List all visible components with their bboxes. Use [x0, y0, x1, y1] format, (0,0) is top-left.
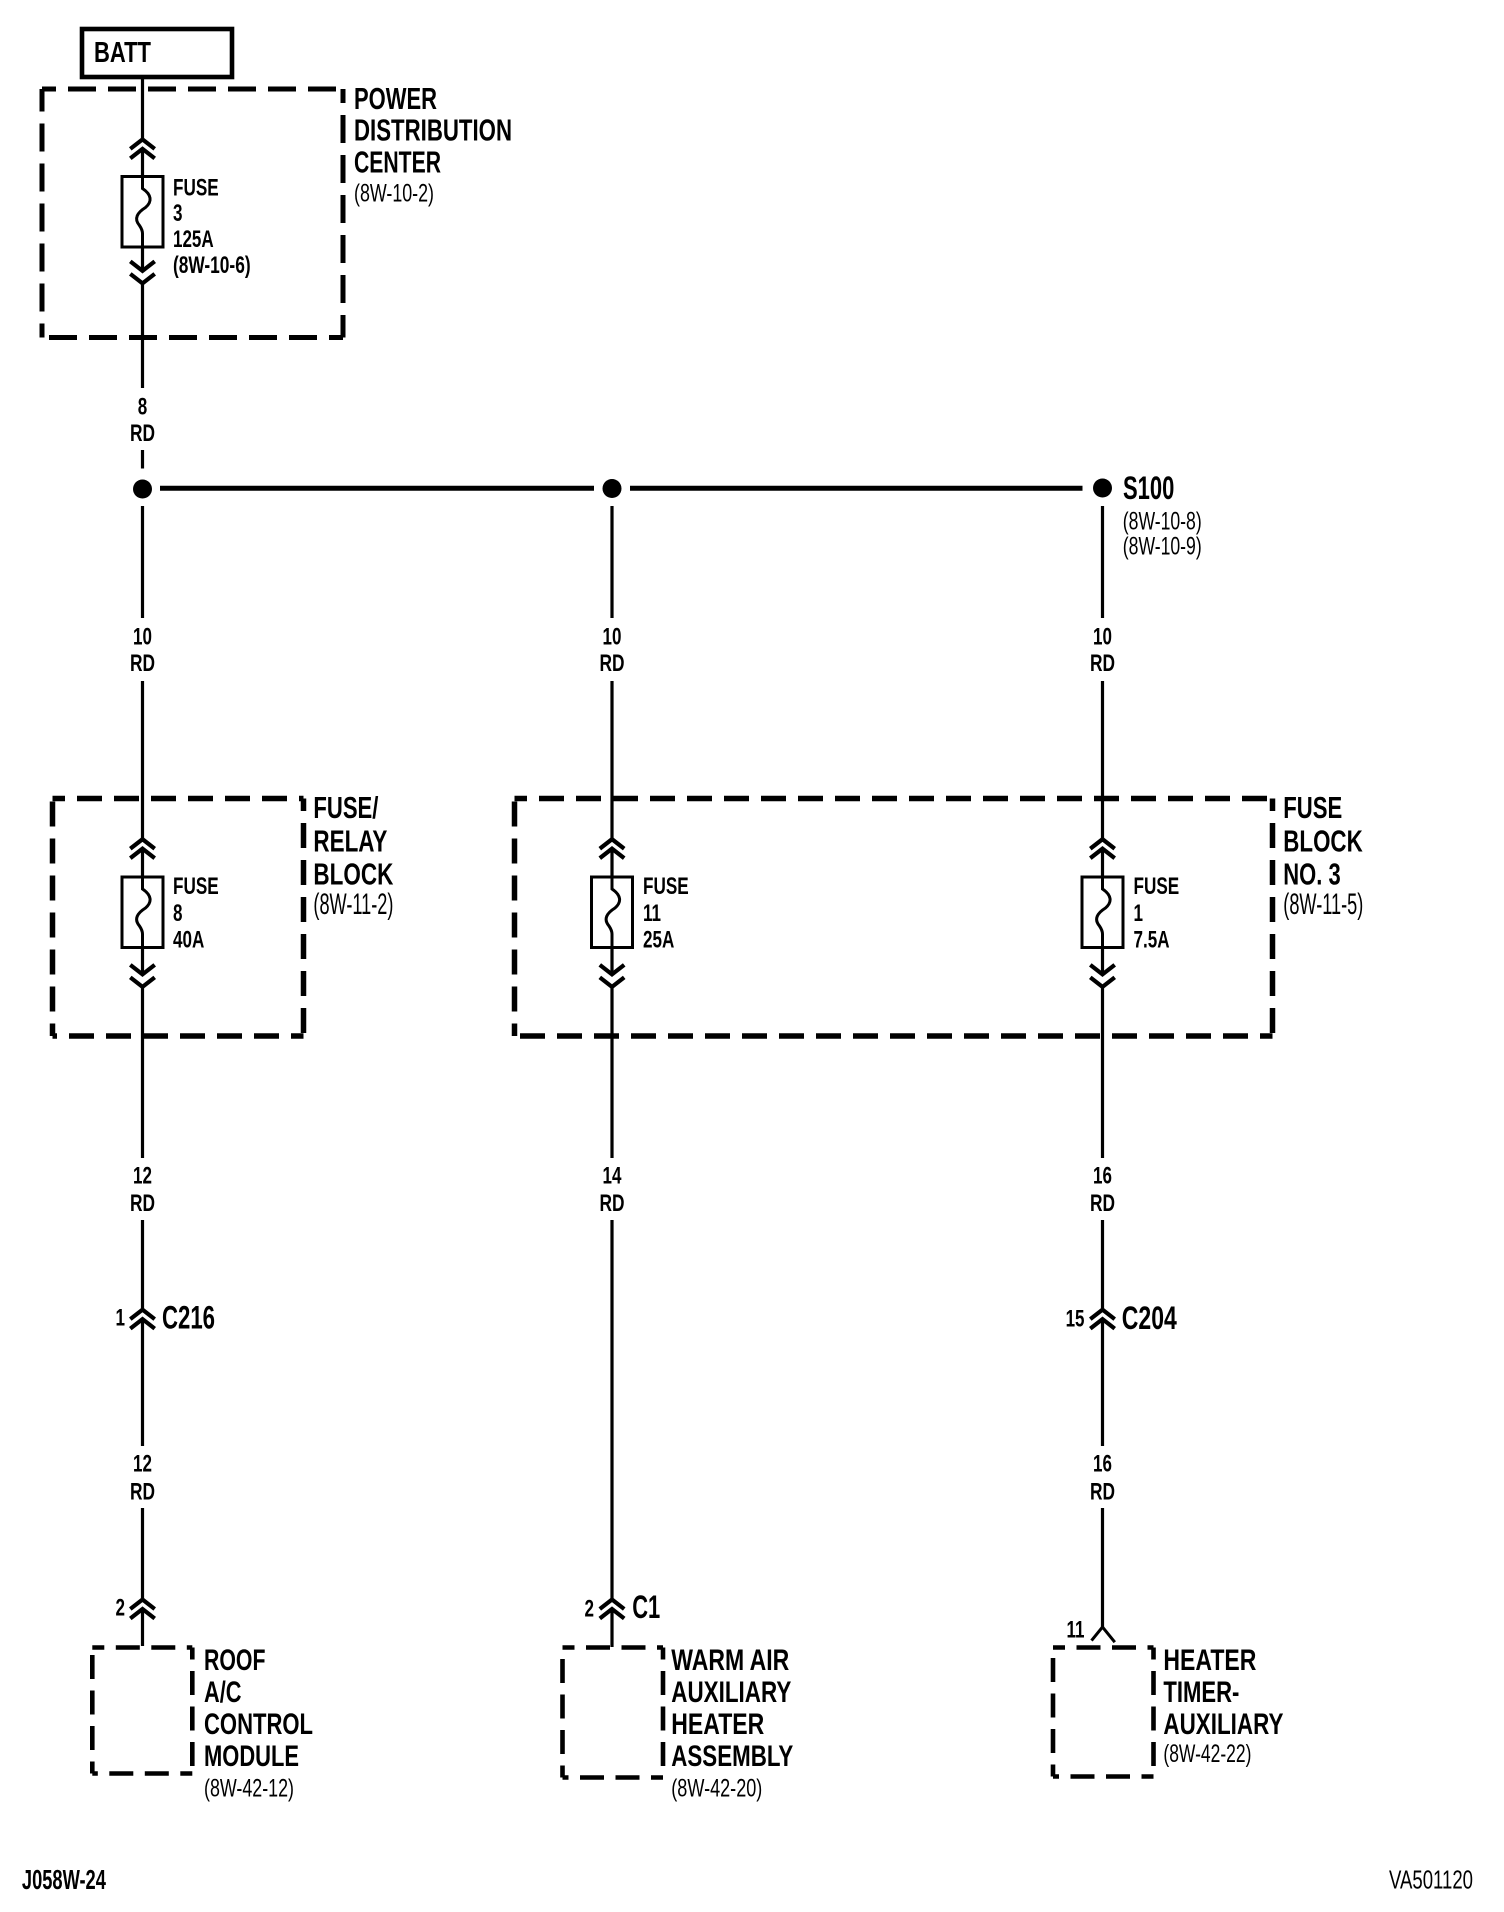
wire fuse to output arrows	[1101, 948, 1104, 975]
wire into roof a/c module	[141, 1609, 144, 1646]
svg-text:ASSEMBLY: ASSEMBLY	[671, 1740, 793, 1773]
svg-text:8: 8	[173, 900, 183, 927]
svg-text:16: 16	[1093, 1163, 1112, 1190]
wire into fuse block at x=1102.5	[1101, 681, 1104, 839]
svg-text:BLOCK: BLOCK	[1283, 823, 1363, 858]
svg-text:DISTRIBUTION: DISTRIBUTION	[354, 113, 512, 148]
svg-text:(8W-11-2): (8W-11-2)	[313, 888, 393, 921]
fuse output connector arrows	[1090, 965, 1114, 975]
svg-text:AUXILIARY: AUXILIARY	[1163, 1708, 1283, 1741]
bus wire S100 left segment	[160, 486, 594, 491]
fuse feed connector arrows	[600, 839, 624, 849]
fuse output connector arrows	[600, 965, 624, 975]
svg-text:HEATER: HEATER	[1163, 1644, 1256, 1677]
svg-text:RD: RD	[130, 420, 155, 447]
node S100 junction dot left	[133, 480, 152, 499]
wire node S100 drop at x=1102.5 (upper)	[1101, 506, 1104, 618]
svg-text:RD: RD	[1090, 1479, 1115, 1506]
svg-text:RD: RD	[1090, 650, 1115, 677]
wire to connector C216	[141, 1220, 144, 1310]
svg-text:7.5A: 7.5A	[1134, 927, 1170, 954]
svg-text:2: 2	[585, 1595, 595, 1622]
svg-text:CENTER: CENTER	[354, 145, 441, 180]
svg-text:C204: C204	[1122, 1300, 1177, 1336]
fuse 1 7.5A	[1082, 877, 1123, 948]
heater timer half-connector caret	[1092, 1627, 1115, 1642]
svg-text:(8W-42-12): (8W-42-12)	[204, 1775, 294, 1803]
svg-text:FUSE/: FUSE/	[313, 790, 378, 825]
wire arrows to fuse 3	[141, 149, 144, 177]
node S100 junction dot middle	[603, 479, 622, 498]
svg-text:(8W-10-9): (8W-10-9)	[1123, 533, 1202, 561]
fuse 3 output connector arrows	[130, 261, 154, 271]
fuse output connector arrows	[130, 965, 154, 975]
svg-text:(8W-10-2): (8W-10-2)	[354, 180, 434, 208]
svg-text:WARM AIR: WARM AIR	[671, 1644, 789, 1677]
svg-text:12: 12	[133, 1163, 152, 1190]
svg-text:8: 8	[138, 394, 148, 421]
wire fuse to output arrows	[610, 948, 613, 975]
svg-text:RD: RD	[130, 1190, 155, 1217]
wire into warm air heater assembly	[610, 1609, 613, 1647]
svg-text:10: 10	[603, 624, 622, 651]
svg-text:TIMER-: TIMER-	[1163, 1676, 1239, 1709]
fuse/relay block box	[53, 799, 304, 1037]
svg-text:CONTROL: CONTROL	[204, 1708, 313, 1741]
fuse 8 40A	[122, 877, 163, 948]
svg-text:A/C: A/C	[204, 1676, 242, 1709]
svg-text:(8W-10-8): (8W-10-8)	[1123, 508, 1202, 536]
svg-text:RD: RD	[600, 1190, 625, 1217]
wire arrows to fuse	[141, 849, 144, 877]
svg-text:FUSE: FUSE	[173, 873, 219, 900]
roof a/c control module box	[92, 1648, 192, 1774]
wire arrows to fuse	[610, 849, 613, 877]
svg-text:S100: S100	[1123, 470, 1174, 506]
svg-text:40A: 40A	[173, 927, 204, 954]
wire to roof a/c module connector	[141, 1508, 144, 1600]
svg-text:RD: RD	[130, 1479, 155, 1506]
fuse 3 feed connector arrows	[130, 139, 154, 149]
svg-text:POWER: POWER	[354, 81, 437, 116]
svg-text:VA501120: VA501120	[1389, 1865, 1473, 1895]
svg-text:(8W-10-6): (8W-10-6)	[173, 252, 251, 279]
wire fuse 11 to warm air heater	[610, 1220, 613, 1600]
svg-text:(8W-42-20): (8W-42-20)	[671, 1775, 762, 1803]
svg-text:RELAY: RELAY	[313, 823, 387, 858]
svg-text:HEATER: HEATER	[671, 1708, 764, 1741]
svg-text:(8W-42-22): (8W-42-22)	[1163, 1740, 1251, 1768]
node S100 junction dot right	[1093, 479, 1112, 498]
svg-text:C216: C216	[162, 1300, 215, 1336]
svg-text:MODULE: MODULE	[204, 1740, 299, 1773]
wire fuse output at x=612.0	[610, 987, 613, 1158]
connector C204 symbol	[1090, 1310, 1114, 1320]
wire C216 to roof a/c module (upper)	[141, 1319, 144, 1446]
svg-text:15: 15	[1066, 1306, 1085, 1333]
wire dashed continuation above node	[141, 450, 144, 469]
svg-text:16: 16	[1093, 1451, 1112, 1478]
roof a/c module connector arrows	[130, 1600, 154, 1610]
connector C1 symbol	[600, 1600, 624, 1610]
wire fuse 3 to output arrows	[141, 247, 144, 271]
svg-text:10: 10	[133, 624, 152, 651]
svg-text:1: 1	[1134, 900, 1144, 927]
svg-text:FUSE: FUSE	[1283, 790, 1342, 825]
fuse feed connector arrows	[130, 839, 154, 849]
wire fuse output at x=142.5	[141, 987, 144, 1158]
svg-text:12: 12	[133, 1451, 152, 1478]
fuse block no. 3 box	[515, 799, 1273, 1037]
svg-text:25A: 25A	[643, 927, 674, 954]
warm air auxiliary heater assembly box	[563, 1648, 664, 1778]
wire fuse output at x=1102.5	[1101, 987, 1104, 1158]
svg-text:C1: C1	[632, 1589, 660, 1625]
svg-text:RD: RD	[1090, 1190, 1115, 1217]
svg-text:3: 3	[173, 200, 183, 227]
wire arrows to fuse	[1101, 849, 1104, 877]
fuse 3 125A	[122, 177, 163, 248]
svg-text:FUSE: FUSE	[1134, 873, 1180, 900]
connector C216 symbol	[130, 1310, 154, 1320]
svg-text:NO. 3: NO. 3	[1283, 856, 1340, 891]
svg-text:(8W-11-5): (8W-11-5)	[1283, 888, 1363, 921]
battery feed box BATT	[82, 29, 232, 77]
svg-text:RD: RD	[130, 650, 155, 677]
wire into fuse block at x=612.0	[610, 681, 613, 839]
svg-text:11: 11	[1067, 1617, 1085, 1644]
svg-text:1: 1	[116, 1305, 126, 1332]
svg-text:RD: RD	[600, 650, 625, 677]
svg-text:AUXILIARY: AUXILIARY	[671, 1676, 791, 1709]
svg-text:BATT: BATT	[94, 37, 151, 69]
wire BATT to fuse 3	[141, 77, 144, 139]
bus wire S100 right segment	[630, 486, 1083, 491]
svg-text:J058W-24: J058W-24	[22, 1864, 106, 1895]
wire to connector C204	[1101, 1220, 1104, 1310]
svg-text:FUSE: FUSE	[173, 175, 219, 202]
wire into fuse block at x=142.5	[141, 681, 144, 839]
svg-text:11: 11	[643, 900, 661, 927]
heater timer-auxiliary box	[1053, 1648, 1154, 1777]
wire fuse 3 to node S100 (upper)	[141, 283, 144, 388]
svg-text:BLOCK: BLOCK	[313, 856, 393, 891]
power distribution center box	[42, 89, 343, 338]
svg-text:FUSE: FUSE	[643, 873, 689, 900]
fuse 11 25A	[592, 877, 633, 948]
svg-text:ROOF: ROOF	[204, 1644, 266, 1677]
wire C204 to heater timer (upper)	[1101, 1319, 1104, 1446]
wire node S100 drop at x=142.5 (upper)	[141, 506, 144, 618]
svg-text:10: 10	[1093, 624, 1112, 651]
svg-text:125A: 125A	[173, 226, 214, 253]
wire fuse to output arrows	[141, 948, 144, 975]
svg-text:14: 14	[603, 1163, 622, 1190]
wire to heater timer connector	[1101, 1508, 1104, 1627]
fuse feed connector arrows	[1090, 839, 1114, 849]
wire node S100 drop at x=612.0 (upper)	[610, 506, 613, 618]
svg-text:2: 2	[116, 1595, 126, 1622]
